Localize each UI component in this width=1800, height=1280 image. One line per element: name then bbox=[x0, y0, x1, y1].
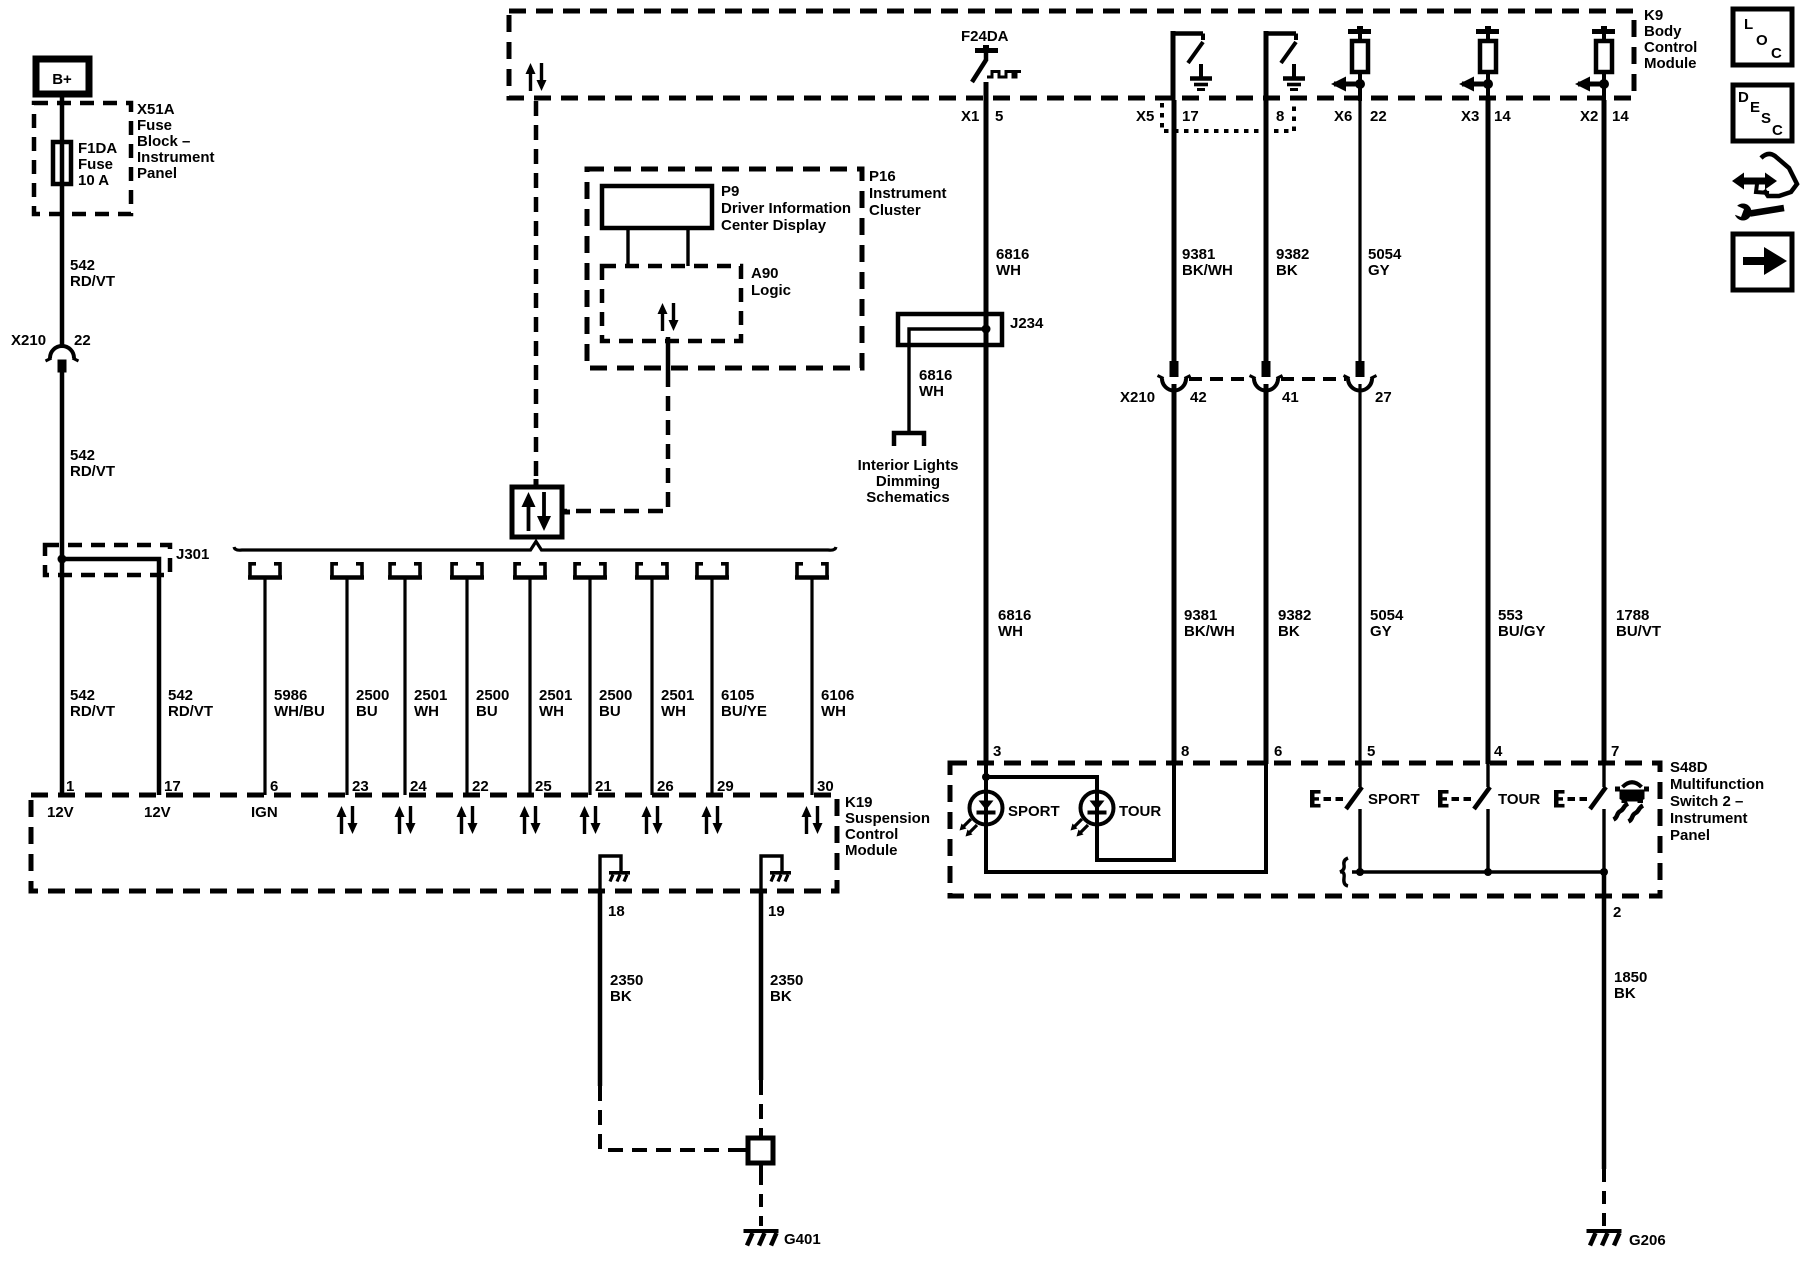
icon traction control bbox=[1614, 782, 1650, 821]
wire label 6816 WH (upper) bbox=[996, 246, 1029, 279]
svg-text:2350: 2350 bbox=[610, 972, 643, 989]
wire label 2500 BU bbox=[599, 687, 632, 720]
terminal pin 30 bbox=[795, 562, 829, 578]
svg-text:6816: 6816 bbox=[996, 246, 1029, 263]
svg-text:8: 8 bbox=[1181, 743, 1189, 760]
svg-text:542: 542 bbox=[168, 687, 193, 704]
svg-text:5054: 5054 bbox=[1370, 607, 1404, 624]
svg-text:9382: 9382 bbox=[1278, 607, 1311, 624]
wire label 542 RD/VT (pin1) bbox=[70, 687, 115, 720]
svg-text:9382: 9382 bbox=[1276, 246, 1309, 263]
svg-text:553: 553 bbox=[1498, 607, 1523, 624]
wire label 553 BU/GY bbox=[1498, 607, 1546, 640]
svg-text:TOUR: TOUR bbox=[1119, 803, 1161, 820]
svg-text:TOUR: TOUR bbox=[1498, 791, 1540, 808]
ground block G401 bbox=[741, 1128, 773, 1172]
wire label 9381 BK/WH (upper) bbox=[1182, 246, 1233, 279]
svg-text:542: 542 bbox=[70, 257, 95, 274]
label P16 Instrument Cluster bbox=[869, 168, 947, 219]
arrows pin 24 bbox=[395, 806, 416, 834]
svg-text:WH: WH bbox=[996, 262, 1021, 279]
wire 5986 WH/BU bbox=[263, 579, 266, 795]
wire 2501 WH (25) bbox=[528, 579, 531, 795]
svg-text:25: 25 bbox=[535, 778, 552, 795]
wire label 2501 WH bbox=[414, 687, 447, 720]
svg-text:GY: GY bbox=[1368, 262, 1390, 279]
wire label 2500 BU bbox=[356, 687, 389, 720]
svg-text:17: 17 bbox=[1182, 108, 1199, 125]
dashed wire from A90 to bus interface bbox=[562, 372, 668, 511]
svg-text:Panel: Panel bbox=[1670, 827, 1710, 844]
arrows pin 22 bbox=[457, 806, 478, 834]
wire from A90 logic bbox=[666, 337, 671, 372]
svg-text:Control: Control bbox=[845, 826, 898, 843]
switch TOUR (pin 4) bbox=[1486, 764, 1489, 787]
wire 9382 BK upper bbox=[1264, 100, 1269, 362]
svg-text:6816: 6816 bbox=[998, 607, 1031, 624]
svg-text:Fuse: Fuse bbox=[137, 117, 172, 134]
svg-text:22: 22 bbox=[472, 778, 489, 795]
terminal pin 25 bbox=[513, 562, 547, 578]
wire label 2350 BK bbox=[610, 972, 643, 1005]
terminal pin 29 bbox=[695, 562, 729, 578]
svg-text:542: 542 bbox=[70, 687, 95, 704]
junction dot in J234 bbox=[982, 325, 991, 334]
terminal pin 26 bbox=[635, 562, 669, 578]
svg-text:17: 17 bbox=[164, 778, 181, 795]
wire 9382 BK lower bbox=[1264, 384, 1269, 764]
label Interior Lights Dimming Schematics bbox=[858, 457, 959, 506]
svg-text:Instrument: Instrument bbox=[137, 149, 215, 166]
svg-text:Block –: Block – bbox=[137, 133, 190, 150]
power feed B+ bbox=[36, 59, 89, 94]
wire label 6816 WH (branch) bbox=[919, 367, 952, 400]
wire below TOUR switch bbox=[1486, 809, 1489, 872]
svg-text:Fuse: Fuse bbox=[78, 156, 113, 173]
icon DESC box bbox=[1733, 85, 1792, 141]
arrows pin 23 bbox=[337, 806, 358, 834]
wire label 2501 WH bbox=[661, 687, 694, 720]
switch to ground (BCM pin 8) bbox=[1264, 31, 1305, 100]
internal ground mark pin 18 bbox=[609, 871, 630, 882]
dashed connector link 41-27 bbox=[1281, 377, 1346, 381]
fuse feed symbol (BCM pin X3-14) bbox=[1459, 26, 1499, 101]
wire branch to TOUR LED bbox=[986, 777, 1097, 826]
dashed wire from K9 to DIC bus interface bbox=[534, 101, 539, 487]
wire label 5986 WH/BU bbox=[274, 687, 325, 720]
svg-text:Instrument: Instrument bbox=[869, 185, 947, 202]
junction dot pin 7 bbox=[1600, 868, 1608, 876]
internal ground wire pin 18 bbox=[600, 856, 621, 899]
wire label 6106 WH bbox=[821, 687, 854, 720]
wire 6816 WH from F24DA down to J234 bbox=[984, 82, 989, 330]
icon LOC box bbox=[1733, 9, 1792, 65]
svg-text:G401: G401 bbox=[784, 1231, 821, 1248]
wire 9381 BK/WH lower bbox=[1172, 384, 1177, 764]
wire label 2500 BU bbox=[476, 687, 509, 720]
svg-text:WH: WH bbox=[414, 703, 439, 720]
display P9 Driver Information Center Display bbox=[602, 186, 712, 228]
svg-text:RD/VT: RD/VT bbox=[168, 703, 213, 720]
svg-text:SPORT: SPORT bbox=[1008, 803, 1060, 820]
svg-text:Control: Control bbox=[1644, 39, 1697, 56]
svg-text:2: 2 bbox=[1613, 904, 1621, 921]
module K19 Suspension Control Module (dashed box) bbox=[31, 795, 837, 891]
logic A90 (dashed box) bbox=[602, 266, 741, 341]
svg-text:BK: BK bbox=[610, 988, 632, 1005]
svg-text:RD/VT: RD/VT bbox=[70, 703, 115, 720]
svg-text:BU/YE: BU/YE bbox=[721, 703, 767, 720]
svg-text:2350: 2350 bbox=[770, 972, 803, 989]
module P16 Instrument Cluster (dashed box) bbox=[587, 169, 862, 368]
arrows pin 25 bbox=[520, 806, 541, 834]
svg-text:27: 27 bbox=[1375, 389, 1392, 406]
splice pack J234 bbox=[898, 314, 1002, 345]
svg-text:X5: X5 bbox=[1136, 108, 1154, 125]
svg-text:Module: Module bbox=[1644, 55, 1697, 72]
svg-text:6: 6 bbox=[1274, 743, 1282, 760]
svg-text:3: 3 bbox=[993, 743, 1001, 760]
dashed connector link 42-41 bbox=[1189, 377, 1252, 381]
svg-text:BU: BU bbox=[356, 703, 378, 720]
svg-text:BK/WH: BK/WH bbox=[1184, 623, 1235, 640]
off-page terminal to interior lights bbox=[894, 433, 924, 446]
svg-text:9381: 9381 bbox=[1184, 607, 1217, 624]
svg-text:Body: Body bbox=[1644, 23, 1682, 40]
internal ground wire pin 19 bbox=[761, 856, 782, 899]
wire below ESC switch bbox=[1602, 809, 1605, 872]
wire label 542 RD/VT (upper) bbox=[70, 257, 115, 290]
wire below SPORT switch bbox=[1358, 809, 1361, 872]
svg-text:BK: BK bbox=[1614, 985, 1636, 1002]
svg-text:BU/GY: BU/GY bbox=[1498, 623, 1546, 640]
svg-text:X1: X1 bbox=[961, 108, 979, 125]
svg-text:C: C bbox=[1771, 45, 1782, 62]
svg-text:24: 24 bbox=[410, 778, 427, 795]
switch blade SPORT bbox=[1310, 787, 1362, 809]
wire 542 RD/VT below X210 bbox=[60, 371, 65, 795]
svg-text:Instrument: Instrument bbox=[1670, 810, 1748, 827]
svg-text:F1DA: F1DA bbox=[78, 140, 117, 157]
connector X5 (dotted box) bbox=[1162, 103, 1294, 131]
svg-text:B+: B+ bbox=[52, 71, 72, 88]
connector X210 pin 42 bbox=[1158, 361, 1191, 391]
svg-text:E: E bbox=[1750, 99, 1760, 116]
svg-text:4: 4 bbox=[1494, 743, 1503, 760]
svg-text:K9: K9 bbox=[1644, 7, 1663, 24]
wire label 1850 BK bbox=[1614, 969, 1647, 1002]
dashed wire to G206 bbox=[1602, 1169, 1606, 1226]
arrows pin 26 bbox=[642, 806, 663, 834]
svg-text:O: O bbox=[1756, 32, 1768, 49]
wire label 6816 WH (lower) bbox=[998, 607, 1031, 640]
svg-text:5986: 5986 bbox=[274, 687, 307, 704]
svg-text:Center Display: Center Display bbox=[721, 217, 827, 234]
svg-text:WH: WH bbox=[821, 703, 846, 720]
svg-text:SPORT: SPORT bbox=[1368, 791, 1420, 808]
svg-text:F24DA: F24DA bbox=[961, 28, 1009, 45]
svg-text:12V: 12V bbox=[47, 804, 74, 821]
svg-text:42: 42 bbox=[1190, 389, 1207, 406]
svg-text:2500: 2500 bbox=[476, 687, 509, 704]
svg-text:14: 14 bbox=[1612, 108, 1629, 125]
svg-text:G206: G206 bbox=[1629, 1232, 1666, 1249]
wire label 1788 BU/VT bbox=[1616, 607, 1661, 640]
switch to ground (BCM pin X5-17) bbox=[1171, 31, 1212, 100]
junction dot J301 bbox=[58, 555, 67, 564]
switch blade ESC bbox=[1554, 787, 1606, 809]
svg-text:C: C bbox=[1772, 122, 1783, 139]
wire 6816 WH J234 to S48D pin 3 bbox=[984, 328, 989, 764]
wire label 2350 BK bbox=[770, 972, 803, 1005]
svg-text:2501: 2501 bbox=[539, 687, 572, 704]
arrows pin 29 bbox=[702, 806, 723, 834]
svg-text:Cluster: Cluster bbox=[869, 202, 921, 219]
label X51A Fuse Block - Instrument Panel bbox=[137, 101, 215, 182]
wire branch inside J234 bbox=[909, 329, 986, 431]
wire 6106 WH bbox=[810, 579, 813, 795]
svg-text:IGN: IGN bbox=[251, 804, 278, 821]
svg-text:2500: 2500 bbox=[356, 687, 389, 704]
bus bar brace J301 outputs bbox=[234, 542, 836, 551]
svg-text:542: 542 bbox=[70, 447, 95, 464]
svg-text:1: 1 bbox=[66, 778, 74, 795]
svg-text:BK: BK bbox=[770, 988, 792, 1005]
wire 2501 WH (26) bbox=[650, 579, 653, 795]
terminal pin 23 bbox=[330, 562, 364, 578]
terminal pin 21 bbox=[573, 562, 607, 578]
wire 553 BU/GY bbox=[1486, 100, 1491, 764]
module S48D Multifunction Switch 2 (dashed box) bbox=[950, 763, 1660, 896]
svg-text:P16: P16 bbox=[869, 168, 896, 185]
dashed ground path pin 19 bbox=[759, 1080, 763, 1130]
fuse feed symbol (BCM pin X2-14) bbox=[1575, 26, 1615, 101]
svg-text:Switch 2 –: Switch 2 – bbox=[1670, 793, 1743, 810]
arrows pin 21 bbox=[580, 806, 601, 834]
terminal pin 22 bbox=[450, 562, 484, 578]
svg-text:Interior Lights: Interior Lights bbox=[858, 457, 959, 474]
svg-text:Module: Module bbox=[845, 842, 898, 859]
wire from B+ through fuse bbox=[60, 94, 65, 348]
svg-text:L: L bbox=[1744, 16, 1753, 33]
internal ground mark pin 19 bbox=[770, 871, 791, 882]
svg-text:Schematics: Schematics bbox=[866, 489, 949, 506]
wire 1788 BU/VT bbox=[1602, 100, 1607, 764]
svg-text:2500: 2500 bbox=[599, 687, 632, 704]
wire label 9381 BK/WH (lower) bbox=[1184, 607, 1235, 640]
svg-text:X6: X6 bbox=[1334, 108, 1352, 125]
svg-text:J234: J234 bbox=[1010, 315, 1044, 332]
fuse feed symbol (BCM pin X6-22) bbox=[1331, 26, 1371, 101]
svg-text:WH: WH bbox=[661, 703, 686, 720]
label S48D Multifunction Switch 2 - Instrument Panel bbox=[1670, 759, 1764, 844]
fuse F1DA 10A bbox=[53, 142, 71, 184]
terminal pin 24 bbox=[388, 562, 422, 578]
svg-text:18: 18 bbox=[608, 903, 625, 920]
DIC bus interface box with arrows bbox=[512, 479, 570, 537]
dashed ground path pin 18 bbox=[600, 1086, 741, 1150]
switch blade TOUR bbox=[1438, 787, 1490, 809]
junction dot pin 5 bbox=[1356, 868, 1364, 876]
svg-text:X210: X210 bbox=[1120, 389, 1155, 406]
wire 2350 BK pin 18 bbox=[598, 893, 603, 1086]
svg-text:S48D: S48D bbox=[1670, 759, 1708, 776]
svg-text:WH: WH bbox=[539, 703, 564, 720]
icon arrows and wrench bbox=[1730, 154, 1797, 221]
svg-text:BK/WH: BK/WH bbox=[1182, 262, 1233, 279]
svg-text:29: 29 bbox=[717, 778, 734, 795]
svg-text:X210: X210 bbox=[11, 332, 46, 349]
wire splice branch bbox=[62, 559, 159, 795]
wire 9381 BK/WH upper bbox=[1172, 100, 1177, 362]
svg-text:BK: BK bbox=[1276, 262, 1298, 279]
arrows pin 30 bbox=[802, 806, 823, 834]
svg-text:1788: 1788 bbox=[1616, 607, 1649, 624]
wire 5054 GY lower bbox=[1358, 384, 1361, 764]
svg-text:WH/BU: WH/BU bbox=[274, 703, 325, 720]
svg-text:26: 26 bbox=[657, 778, 674, 795]
wire label 542 RD/VT (pin17) bbox=[168, 687, 213, 720]
svg-text:P9: P9 bbox=[721, 183, 739, 200]
module K9 Body Control Module (dashed box) bbox=[509, 11, 1634, 98]
svg-text:X3: X3 bbox=[1461, 108, 1479, 125]
wire 2501 WH (24) bbox=[403, 579, 406, 795]
connector X210 pin 22 (left) bbox=[46, 346, 79, 373]
svg-text:Driver Information: Driver Information bbox=[721, 200, 851, 217]
ground G206 bbox=[1587, 1229, 1622, 1246]
svg-text:9381: 9381 bbox=[1182, 246, 1215, 263]
svg-text:BU/VT: BU/VT bbox=[1616, 623, 1661, 640]
wire label 5054 GY (upper) bbox=[1368, 246, 1402, 279]
svg-text:Multifunction: Multifunction bbox=[1670, 776, 1764, 793]
svg-text:6: 6 bbox=[270, 778, 278, 795]
svg-text:K19: K19 bbox=[845, 794, 873, 811]
label A90 Logic bbox=[751, 265, 791, 299]
wire 2500 BU (21) bbox=[588, 579, 591, 795]
svg-text:12V: 12V bbox=[144, 804, 171, 821]
connector X210 pin 27 bbox=[1344, 361, 1377, 391]
svg-text:BU: BU bbox=[599, 703, 621, 720]
ground G401 bbox=[744, 1229, 779, 1246]
circuit breaker F24DA bbox=[972, 45, 1021, 82]
wire 2500 BU (22) bbox=[465, 579, 468, 795]
label K19 Suspension Control Module bbox=[845, 794, 930, 859]
wire display leg right bbox=[686, 228, 689, 266]
svg-text:X2: X2 bbox=[1580, 108, 1598, 125]
wire 2350 BK pin 19 bbox=[759, 893, 764, 1080]
wire pin 3 to LEDs bbox=[984, 764, 988, 826]
terminal pin 6 bbox=[248, 562, 282, 578]
wire 5054 GY upper bbox=[1358, 100, 1361, 362]
wire display leg left bbox=[626, 228, 629, 266]
svg-text:5054: 5054 bbox=[1368, 246, 1402, 263]
svg-text:41: 41 bbox=[1282, 389, 1299, 406]
svg-text:23: 23 bbox=[352, 778, 369, 795]
connector X210 pin 41 bbox=[1250, 361, 1283, 391]
svg-text:10 A: 10 A bbox=[78, 172, 109, 189]
dashed wire to G401 bbox=[759, 1172, 763, 1226]
wire label 9382 BK (upper) bbox=[1276, 246, 1309, 279]
svg-text:Panel: Panel bbox=[137, 165, 177, 182]
svg-text:A90: A90 bbox=[751, 265, 779, 282]
label F1DA Fuse 10 A bbox=[78, 140, 117, 189]
svg-text:30: 30 bbox=[817, 778, 834, 795]
bidirectional arrows inside A90 bbox=[658, 303, 679, 331]
svg-text:BK: BK bbox=[1278, 623, 1300, 640]
junction dot pin 4 bbox=[1484, 868, 1492, 876]
switch ESC (pin 7) bbox=[1602, 764, 1605, 787]
wire SPORT LED to pin 6 wire bbox=[986, 764, 1266, 872]
svg-text:19: 19 bbox=[768, 903, 785, 920]
svg-text:GY: GY bbox=[1370, 623, 1392, 640]
svg-text:14: 14 bbox=[1494, 108, 1511, 125]
svg-text:RD/VT: RD/VT bbox=[70, 463, 115, 480]
svg-text:RD/VT: RD/VT bbox=[70, 273, 115, 290]
svg-text:S: S bbox=[1761, 110, 1771, 127]
svg-text:2501: 2501 bbox=[661, 687, 694, 704]
svg-text:6106: 6106 bbox=[821, 687, 854, 704]
svg-text:22: 22 bbox=[1370, 108, 1387, 125]
icon forward arrow box bbox=[1733, 234, 1792, 290]
svg-text:6105: 6105 bbox=[721, 687, 754, 704]
svg-text:5: 5 bbox=[1367, 743, 1375, 760]
svg-text:6816: 6816 bbox=[919, 367, 952, 384]
wire label 9382 BK (lower) bbox=[1278, 607, 1311, 640]
indicator LED TOUR bbox=[1071, 792, 1114, 837]
svg-text:WH: WH bbox=[919, 383, 944, 400]
label P9 Driver Information Center Display bbox=[721, 183, 851, 234]
indicator LED SPORT bbox=[960, 792, 1003, 837]
svg-text:Dimming: Dimming bbox=[876, 473, 940, 490]
mechanical link brace bbox=[1340, 858, 1348, 886]
svg-text:D: D bbox=[1738, 89, 1749, 106]
svg-text:J301: J301 bbox=[176, 546, 209, 563]
wire 6105 BU/YE bbox=[710, 579, 713, 795]
wire 1850 BK pin 2 bbox=[1602, 872, 1607, 1169]
wire TOUR LED to pin 8 wire bbox=[1097, 764, 1174, 860]
svg-text:21: 21 bbox=[595, 778, 612, 795]
svg-text:X51A: X51A bbox=[137, 101, 175, 118]
svg-text:BU: BU bbox=[476, 703, 498, 720]
junction dot LED branch bbox=[982, 773, 990, 781]
splice J301 (dashed box) bbox=[45, 545, 170, 575]
svg-text:1850: 1850 bbox=[1614, 969, 1647, 986]
wire label 6105 BU/YE bbox=[721, 687, 767, 720]
wire label 542 RD/VT (middle) bbox=[70, 447, 115, 480]
svg-text:WH: WH bbox=[998, 623, 1023, 640]
wire label 2501 WH bbox=[539, 687, 572, 720]
svg-text:7: 7 bbox=[1611, 743, 1619, 760]
switch common bus bbox=[1352, 870, 1604, 873]
wire 2500 BU (23) bbox=[345, 579, 348, 795]
svg-text:22: 22 bbox=[74, 332, 91, 349]
svg-text:Logic: Logic bbox=[751, 282, 791, 299]
svg-text:8: 8 bbox=[1276, 108, 1284, 125]
fuse block X51A (dashed box) bbox=[34, 103, 131, 214]
svg-text:Suspension: Suspension bbox=[845, 810, 930, 827]
switch SPORT (pin 5) bbox=[1358, 764, 1361, 787]
wire label 5054 GY (lower) bbox=[1370, 607, 1404, 640]
bidirectional arrows inside K9 bbox=[526, 63, 547, 91]
svg-text:5: 5 bbox=[995, 108, 1003, 125]
svg-text:2501: 2501 bbox=[414, 687, 447, 704]
